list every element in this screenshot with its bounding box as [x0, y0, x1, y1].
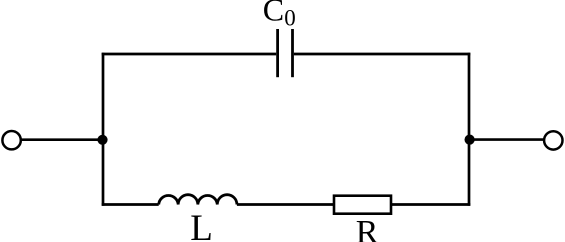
left terminal — [2, 131, 20, 149]
wire bottom right segment — [391, 203, 470, 206]
wire bottom middle segment — [237, 203, 334, 206]
wire node B to right terminal — [469, 138, 544, 141]
wire right vertical — [468, 53, 471, 206]
wire top left segment — [102, 53, 277, 56]
wire left vertical — [102, 53, 105, 206]
wire bottom left segment — [102, 203, 159, 206]
svg-text:0: 0 — [284, 5, 296, 30]
inductor L — [159, 195, 237, 205]
svg-text:R: R — [356, 214, 379, 242]
svg-text:C: C — [263, 0, 284, 28]
wire top right segment — [294, 53, 470, 56]
svg-text:L: L — [190, 208, 213, 242]
wire left terminal to node A — [21, 138, 102, 141]
resistor R — [334, 196, 391, 214]
node A junction dot left — [97, 135, 107, 145]
capacitor C0 — [278, 29, 293, 77]
right terminal — [544, 131, 562, 149]
node B junction dot right — [465, 135, 475, 145]
